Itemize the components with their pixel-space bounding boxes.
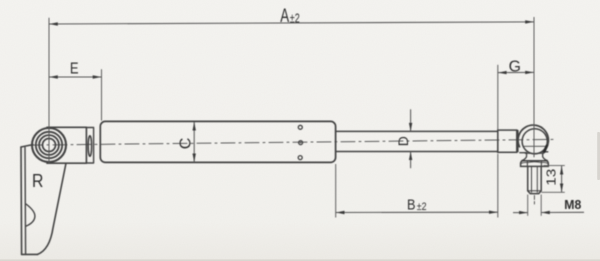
svg-text:A: A bbox=[280, 6, 289, 27]
nut facet middle arc bbox=[527, 161, 541, 164]
eyelet ring 3 bbox=[39, 135, 59, 155]
arrow M8 right bbox=[541, 211, 550, 214]
eyelet housing bbox=[47, 127, 86, 163]
stud centerline bbox=[533, 196, 535, 205]
svg-text:E: E bbox=[70, 61, 79, 78]
bottom scan edge bbox=[0, 259, 600, 261]
ext lines 13 bbox=[544, 165, 565, 167]
eyelet ring 2 bbox=[36, 132, 62, 158]
threaded stud bbox=[528, 166, 542, 193]
arrow E left bbox=[49, 75, 58, 78]
arrow C bottom bbox=[193, 154, 196, 163]
arrow G right bbox=[525, 71, 534, 74]
dim line A bbox=[49, 22, 534, 24]
piston rod top edge bbox=[336, 130, 498, 132]
svg-text:D: D bbox=[395, 136, 411, 146]
arrow B right bbox=[489, 211, 498, 214]
vent hole bottom bbox=[298, 156, 302, 160]
socket lip bbox=[525, 152, 544, 154]
arrow D top bbox=[409, 123, 412, 131]
dim line M8 left bbox=[513, 212, 528, 214]
bracket top edge bbox=[21, 145, 33, 147]
svg-text:±2: ±2 bbox=[417, 201, 427, 213]
right edge scan smudge bbox=[597, 132, 600, 180]
arrow D bottom bbox=[409, 152, 412, 161]
arrow B left bbox=[336, 211, 345, 214]
ext lines stud bbox=[527, 195, 529, 216]
dim line C bbox=[193, 122, 195, 162]
ball equator line bbox=[524, 145, 546, 147]
nut facet right line bbox=[540, 162, 542, 167]
bracket weld notch bbox=[26, 204, 35, 226]
svg-text:M8: M8 bbox=[564, 197, 581, 212]
thread line left bbox=[531, 167, 533, 192]
housing underside left bbox=[520, 152, 527, 154]
ext line cylinder front bbox=[101, 69, 103, 120]
svg-text:R: R bbox=[32, 171, 43, 191]
eyelet outer circle bbox=[32, 128, 66, 162]
dim line 13 bbox=[561, 166, 563, 192]
cylinder body bbox=[100, 121, 335, 162]
ball housing outer arc bbox=[518, 125, 548, 152]
hex nut outline bbox=[521, 161, 549, 167]
vent hole middle bbox=[299, 141, 303, 145]
ball bbox=[522, 129, 547, 154]
housing underside right bbox=[542, 151, 548, 153]
arrow M8 left bbox=[519, 211, 528, 214]
svg-text:B: B bbox=[407, 196, 416, 213]
ext line eyelet center bbox=[48, 18, 50, 164]
svg-text:G: G bbox=[509, 58, 521, 75]
housing chamfer mark bbox=[544, 146, 547, 152]
arrow 13 top bbox=[560, 166, 563, 175]
ball neck left bbox=[522, 153, 527, 160]
dim line M8 right bbox=[541, 211, 584, 213]
dim line D top bbox=[410, 109, 412, 131]
ball housing left face bbox=[517, 131, 519, 152]
bracket inner left edge bbox=[24, 148, 27, 255]
svg-text:13: 13 bbox=[544, 169, 558, 186]
arrow E right bbox=[93, 75, 102, 78]
piston rod bottom edge bbox=[336, 151, 498, 153]
vent hole top bbox=[298, 125, 302, 129]
eyelet bore bbox=[43, 139, 56, 152]
rod end sleeve bbox=[498, 130, 517, 152]
bracket bottom edge bbox=[22, 253, 38, 255]
dim line E bbox=[49, 76, 102, 78]
dim line G bbox=[498, 71, 534, 73]
arrow A right bbox=[525, 20, 534, 23]
stud chamfer line bbox=[528, 190, 541, 192]
centerline axis (dash-dot) bbox=[29, 139, 556, 145]
ball neck right bbox=[543, 153, 548, 160]
ext line cylinder end bbox=[335, 164, 337, 218]
nut facet left line bbox=[526, 162, 528, 167]
nut facet side arcs bbox=[521, 161, 548, 164]
collar bbox=[86, 128, 93, 164]
svg-text:±2: ±2 bbox=[290, 10, 300, 25]
bracket right edge bbox=[38, 164, 66, 255]
bracket outer left edge bbox=[20, 147, 23, 254]
dim line B bbox=[336, 211, 498, 213]
ext line ball center bbox=[533, 17, 535, 157]
thread line right bbox=[536, 167, 538, 192]
arrow G left bbox=[498, 71, 507, 74]
ext line rod end bbox=[497, 65, 499, 130]
dim line D bottom bbox=[410, 152, 412, 169]
arrow 13 bottom bbox=[560, 184, 563, 193]
arrow C top bbox=[193, 122, 196, 131]
arrow A left bbox=[49, 22, 58, 25]
weld lens bbox=[88, 136, 91, 157]
svg-text:C: C bbox=[178, 138, 195, 150]
